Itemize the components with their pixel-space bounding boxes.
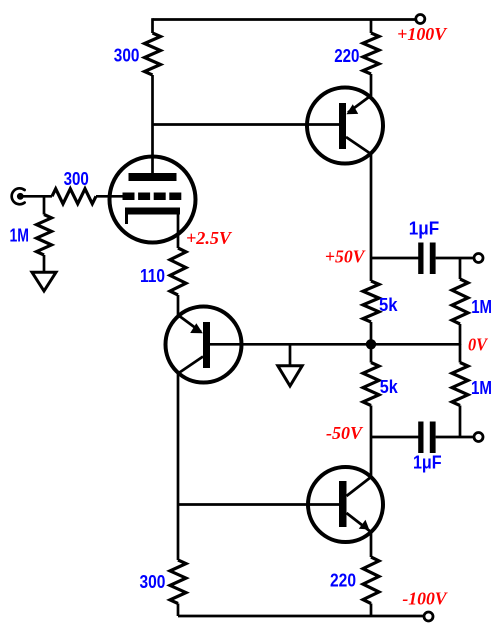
node 0V junction [366,339,376,349]
wire R2 to Q1 emitter [370,74,373,96]
wire R6 to node [370,322,373,344]
input terminal J1 [12,188,25,204]
wire R9 to -50V wire [459,406,462,438]
wire -50V to cap [371,436,419,439]
transistor Q3 (NPN bottom) [308,467,383,542]
wire Q1 base [153,123,340,126]
resistor R11 220 (bottom) [363,557,379,604]
wire -50V to Q3 collector [370,437,373,478]
wire bottom rail [178,615,424,618]
svg-text:1M: 1M [9,225,29,246]
wire +50V to cap [371,257,419,260]
svg-text:1μF: 1μF [413,452,442,473]
wire cap2 to terminal [436,436,475,439]
wire R11 to rail [370,604,373,617]
svg-text:1M: 1M [471,377,492,398]
capacitor C1 1uF (top) [418,243,435,275]
wire cathode leg [177,215,180,249]
wire R2 top stub [370,20,373,34]
resistor R1 300 (top left) [145,33,161,75]
wire R8 to -50V [370,406,373,438]
resistor R7 1M (upper right) [452,279,468,324]
svg-text:-100V: -100V [402,589,448,609]
terminal +50V out [474,254,483,263]
tube V1 [110,157,196,243]
wire R1 to plate node [151,75,154,173]
wire Q2 collector down [177,373,180,560]
transistor Q1 (PNP top) [307,88,383,164]
wire R7 top stub [459,258,462,279]
svg-text:300: 300 [114,45,140,66]
wire R7 to 0V [459,324,462,345]
svg-text:220: 220 [334,45,359,66]
svg-text:+100V: +100V [397,24,447,44]
wire input to R3 [20,195,52,198]
svg-text:0V: 0V [468,335,488,355]
transistor Q2 (PNP middle) [166,307,242,383]
resistor R9 1M (lower right) [452,363,468,406]
resistor R8 5k (lower) [363,363,379,406]
wire 0V to R9 [459,344,462,362]
wire R4 to ground [43,255,46,271]
wire 0V horizontal [210,343,460,346]
wire Q3 base [178,503,340,506]
wire R3 to grid [96,195,123,198]
svg-text:300: 300 [64,168,89,189]
wire R5 to Q2 emitter [177,295,180,316]
resistor R6 5k (upper) [363,281,379,322]
svg-text:300: 300 [140,571,166,592]
resistor R2 220 (top right) [363,33,379,74]
svg-text:220: 220 [330,570,356,591]
terminal +100V [416,15,425,24]
terminal -50V out [474,433,483,442]
svg-text:1μF: 1μF [409,218,439,239]
svg-text:1M: 1M [471,296,492,317]
svg-text:+50V: +50V [325,247,366,267]
wire cap to terminal [436,257,475,260]
wire R4 top stub [43,196,46,214]
svg-text:5k: 5k [380,376,399,397]
resistor R10 300 (bottom) [170,560,186,604]
wire Q3 emitter down [370,532,373,558]
svg-text:110: 110 [140,265,165,286]
wire R10 to rail [177,604,180,617]
wire node to R8 [370,344,373,362]
resistor R3 300 (input) [52,189,96,204]
terminal -100V [424,612,433,621]
wire ground stem [289,344,292,364]
svg-text:5k: 5k [379,294,398,315]
capacitor C2 1uF (bottom) [418,422,435,454]
wire R1 top stub [151,18,154,33]
resistor R5 110 [170,248,186,295]
wire top rail [153,18,416,21]
ground input [32,272,56,291]
wire Q1 collector down [370,154,373,282]
svg-text:-50V: -50V [326,423,363,443]
svg-text:+2.5V: +2.5V [186,228,232,248]
ground middle [278,366,302,386]
resistor R4 1M (input) [37,215,52,256]
